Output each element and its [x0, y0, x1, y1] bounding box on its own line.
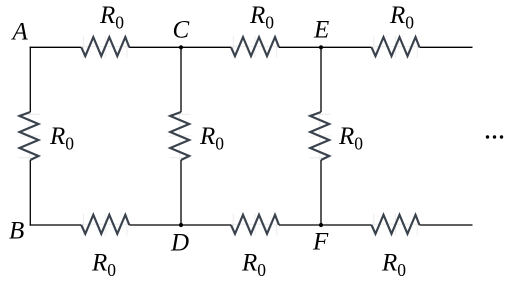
- svg-text:R0: R0: [389, 2, 414, 33]
- svg-text:R0: R0: [99, 2, 124, 33]
- wire: top rail A to R1: [30, 46, 82, 48]
- junction dot node E: [319, 45, 323, 49]
- svg-text:R0: R0: [241, 250, 266, 281]
- junction dot node D: [179, 223, 183, 227]
- svg-text:A: A: [11, 19, 29, 46]
- resistor R0 (bottom, B to D): [81, 214, 129, 236]
- svg-text:R0: R0: [338, 123, 363, 154]
- wire: right branch R9 down to F: [320, 160, 322, 225]
- resistor R0 (vertical, C to D): [169, 112, 191, 160]
- wire: top rail R3 to right end: [420, 46, 473, 48]
- svg-text:F: F: [312, 229, 329, 256]
- wire: top rail R2 to R3 (through node E): [279, 46, 372, 48]
- wire: middle branch C down to R8: [180, 47, 182, 112]
- resistor R0 (vertical, A to B): [19, 112, 41, 160]
- resistor R0 (vertical, E to F): [309, 112, 331, 160]
- svg-text:R0: R0: [249, 2, 274, 33]
- wire: left branch A down to R7: [29, 47, 31, 112]
- resistor R0 (bottom, D to F): [231, 214, 279, 236]
- svg-text:R0: R0: [49, 123, 74, 154]
- wire: middle branch R8 down to D: [180, 160, 182, 225]
- resistor R0 (bottom, F to right): [372, 214, 420, 236]
- wire: bottom rail B to R4: [30, 224, 82, 226]
- wire: bottom rail R6 to right end: [420, 224, 473, 226]
- resistor R0 (top, C to E): [231, 36, 279, 58]
- svg-text:B: B: [9, 218, 24, 245]
- wire: bottom rail R5 to R6 (through node F): [279, 224, 372, 226]
- resistor R0 (top, E to right): [372, 36, 420, 58]
- junction dot node F: [319, 223, 323, 227]
- junction dot node C: [179, 45, 183, 49]
- ellipsis (ladder continues to the right): [486, 135, 503, 138]
- svg-text:R0: R0: [199, 123, 224, 154]
- svg-text:R0: R0: [91, 250, 116, 281]
- svg-text:D: D: [170, 230, 189, 257]
- wire: bottom rail R4 to R5 (through node D): [129, 224, 231, 226]
- wire: left branch R7 down to B: [29, 160, 31, 226]
- resistor R0 (top, A to C): [81, 36, 129, 58]
- wire: right branch E down to R9: [320, 47, 322, 112]
- svg-text:R0: R0: [381, 250, 406, 281]
- wire: top rail R1 to R2 (through node C): [129, 46, 231, 48]
- svg-text:E: E: [313, 17, 329, 44]
- svg-text:C: C: [173, 17, 190, 44]
